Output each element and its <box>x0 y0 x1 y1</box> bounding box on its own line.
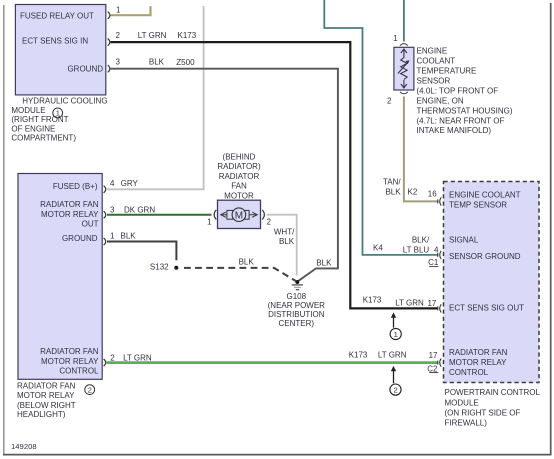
svg-text:CONTROL: CONTROL <box>59 367 99 376</box>
svg-text:TAN/: TAN/ <box>383 177 401 186</box>
svg-text:1: 1 <box>393 34 398 43</box>
svg-text:ENGINE, ON: ENGINE, ON <box>417 97 464 106</box>
svg-text:FUSED (B+): FUSED (B+) <box>53 182 98 191</box>
svg-text:BLK: BLK <box>316 259 332 268</box>
svg-text:(BELOW RIGHT: (BELOW RIGHT <box>17 401 76 410</box>
svg-text:MOTOR: MOTOR <box>224 191 254 200</box>
svg-text:SENSOR: SENSOR <box>417 76 451 85</box>
svg-text:FIREWALL): FIREWALL) <box>445 419 488 428</box>
svg-text:MOTOR RELAY: MOTOR RELAY <box>41 210 99 219</box>
svg-text:LT GRN: LT GRN <box>138 31 167 40</box>
svg-text:GRY: GRY <box>121 179 139 188</box>
svg-text:BLK: BLK <box>239 258 255 267</box>
svg-text:3: 3 <box>116 58 121 67</box>
svg-text:1: 1 <box>207 218 212 227</box>
svg-text:COMPARTMENT): COMPARTMENT) <box>11 134 76 143</box>
svg-text:COOLANT: COOLANT <box>417 56 456 65</box>
svg-text:K173: K173 <box>363 295 382 304</box>
svg-text:K173: K173 <box>178 31 197 40</box>
svg-text:TEMP SENSOR: TEMP SENSOR <box>449 200 507 209</box>
svg-text:2: 2 <box>387 96 392 105</box>
svg-text:ECT SENS SIG OUT: ECT SENS SIG OUT <box>449 304 524 313</box>
svg-text:HYDRAULIC COOLING: HYDRAULIC COOLING <box>22 97 107 106</box>
svg-text:HEADLIGHT): HEADLIGHT) <box>17 410 66 419</box>
svg-text:K2: K2 <box>408 188 418 197</box>
svg-text:LT GRN: LT GRN <box>395 299 424 308</box>
svg-text:(ON RIGHT SIDE OF: (ON RIGHT SIDE OF <box>445 409 521 418</box>
svg-text:FAN: FAN <box>231 182 247 191</box>
svg-text:MOTOR RELAY: MOTOR RELAY <box>17 391 75 400</box>
svg-text:K4: K4 <box>373 243 383 252</box>
svg-text:FUSED RELAY OUT: FUSED RELAY OUT <box>20 11 94 20</box>
svg-text:RADIATOR FAN: RADIATOR FAN <box>449 348 508 357</box>
svg-text:INTAKE MANIFOLD): INTAKE MANIFOLD) <box>417 126 492 135</box>
svg-text:BLK: BLK <box>121 232 137 241</box>
svg-text:GROUND: GROUND <box>62 234 98 243</box>
svg-text:K173: K173 <box>349 351 368 360</box>
svg-text:MODULE: MODULE <box>445 398 479 407</box>
svg-text:(RIGHT FRONT: (RIGHT FRONT <box>11 115 68 124</box>
svg-text:GROUND: GROUND <box>67 64 103 73</box>
svg-text:LT GRN: LT GRN <box>123 353 152 362</box>
svg-text:2: 2 <box>266 218 271 227</box>
svg-text:(NEAR POWER: (NEAR POWER <box>268 301 326 310</box>
svg-text:MODULE: MODULE <box>11 106 45 115</box>
svg-text:OUT: OUT <box>82 220 99 229</box>
svg-text:OF ENGINE: OF ENGINE <box>11 124 55 133</box>
svg-text:POWERTRAIN CONTROL: POWERTRAIN CONTROL <box>445 388 541 397</box>
svg-text:RADIATOR FAN: RADIATOR FAN <box>40 200 99 209</box>
svg-text:CONTROL: CONTROL <box>449 368 489 377</box>
svg-text:CENTER): CENTER) <box>279 319 315 328</box>
svg-text:BLK: BLK <box>385 188 401 197</box>
svg-text:THERMOSTAT HOUSING): THERMOSTAT HOUSING) <box>417 106 513 115</box>
svg-text:BLK: BLK <box>149 57 165 66</box>
svg-text:RADIATOR): RADIATOR) <box>217 162 261 171</box>
svg-text:MOTOR RELAY: MOTOR RELAY <box>41 357 99 366</box>
svg-text:RADIATOR: RADIATOR <box>219 172 260 181</box>
svg-text:16: 16 <box>428 189 437 198</box>
svg-text:MOTOR RELAY: MOTOR RELAY <box>449 358 507 367</box>
svg-text:BLK/: BLK/ <box>412 236 430 245</box>
svg-text:M: M <box>235 210 243 221</box>
svg-text:BLK: BLK <box>279 237 295 246</box>
svg-text:ECT SENS SIG IN: ECT SENS SIG IN <box>22 36 88 45</box>
svg-text:DISTRIBUTION: DISTRIBUTION <box>268 310 325 319</box>
svg-text:17: 17 <box>429 351 438 360</box>
svg-text:(BEHIND: (BEHIND <box>223 153 256 162</box>
svg-text:LT BLU: LT BLU <box>403 246 430 255</box>
svg-text:S132: S132 <box>150 262 169 271</box>
svg-text:ENGINE COOLANT: ENGINE COOLANT <box>449 191 521 200</box>
svg-text:LT GRN: LT GRN <box>378 351 407 360</box>
svg-text:ENGINE: ENGINE <box>417 46 448 55</box>
svg-text:(4.7L: NEAR FRONT OF: (4.7L: NEAR FRONT OF <box>417 116 505 125</box>
svg-text:2: 2 <box>88 385 92 394</box>
svg-text:SIGNAL: SIGNAL <box>449 236 479 245</box>
svg-text:1: 1 <box>116 6 121 15</box>
svg-text:17: 17 <box>427 299 436 308</box>
svg-text:4: 4 <box>110 179 115 188</box>
svg-text:2: 2 <box>110 353 115 362</box>
svg-text:RADIATOR FAN: RADIATOR FAN <box>40 347 99 356</box>
svg-text:WHT/: WHT/ <box>274 227 295 236</box>
svg-text:SENSOR GROUND: SENSOR GROUND <box>449 252 521 261</box>
svg-text:1: 1 <box>110 232 115 241</box>
svg-text:TEMPERATURE: TEMPERATURE <box>417 66 477 75</box>
svg-text:3: 3 <box>110 206 115 215</box>
svg-text:Z500: Z500 <box>176 58 195 67</box>
svg-text:2: 2 <box>393 386 397 395</box>
svg-text:G108: G108 <box>287 292 307 301</box>
svg-text:C1: C1 <box>428 258 439 267</box>
svg-text:2: 2 <box>116 31 121 40</box>
svg-text:1: 1 <box>394 330 398 339</box>
svg-text:RADIATOR FAN: RADIATOR FAN <box>17 382 76 391</box>
svg-text:(4.0L: TOP FRONT OF: (4.0L: TOP FRONT OF <box>417 87 499 96</box>
svg-text:DK GRN: DK GRN <box>124 206 155 215</box>
svg-text:149208: 149208 <box>11 442 37 451</box>
